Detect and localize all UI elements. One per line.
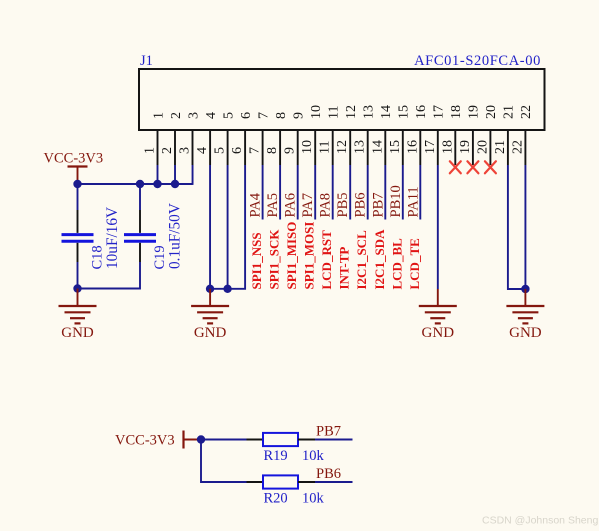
svg-text:10: 10	[309, 105, 324, 119]
svg-text:LCD_TE: LCD_TE	[407, 238, 422, 289]
svg-text:CSDN @Johnson Sheng: CSDN @Johnson Sheng	[482, 515, 598, 527]
svg-text:7: 7	[248, 147, 263, 154]
pin 1 stub and numbers	[143, 112, 167, 165]
svg-text:12: 12	[344, 105, 359, 119]
svg-text:16: 16	[405, 140, 420, 154]
ground below pin 17	[419, 289, 457, 341]
svg-text:22: 22	[510, 140, 525, 154]
wire pin 16	[419, 165, 421, 220]
svg-text:PB7: PB7	[370, 193, 386, 218]
pin 20 stub and numbers	[475, 105, 499, 165]
wire pin 21 down and right	[508, 165, 526, 289]
wire pin 4 down	[209, 165, 211, 289]
svg-text:13: 13	[353, 140, 368, 154]
junction on VCC rail at C19	[136, 180, 144, 188]
wire VCC down to R20 row	[201, 440, 247, 483]
junction on VCC rail at pin 1	[153, 180, 161, 188]
svg-text:6: 6	[239, 112, 254, 119]
no-connect X pin 18	[450, 161, 461, 173]
svg-text:LCD_RST: LCD_RST	[319, 230, 334, 290]
svg-text:0.1uF/50V: 0.1uF/50V	[167, 203, 184, 269]
pin 2 stub and numbers	[160, 112, 184, 165]
wire pin 9	[297, 165, 299, 220]
wire pin 3 to VCC rail	[192, 165, 194, 185]
svg-text:14: 14	[370, 140, 385, 154]
svg-text:5: 5	[213, 147, 228, 154]
wire pin 17 down	[437, 165, 439, 289]
svg-text:18: 18	[440, 140, 455, 154]
junction at C18 bottom	[73, 284, 81, 292]
svg-text:SPI1_SCK: SPI1_SCK	[267, 229, 282, 290]
wire pin 15	[402, 165, 404, 220]
svg-text:21: 21	[493, 140, 508, 154]
svg-text:PB6: PB6	[353, 193, 369, 218]
resistor R20	[247, 475, 325, 506]
svg-text:PB6: PB6	[316, 466, 341, 482]
svg-text:8: 8	[265, 147, 280, 154]
svg-text:12: 12	[335, 140, 350, 154]
svg-text:3: 3	[186, 112, 201, 119]
pin 17 stub and numbers	[423, 105, 447, 165]
svg-text:9: 9	[283, 147, 298, 154]
svg-text:17: 17	[432, 105, 447, 119]
svg-text:I2C1_SDA: I2C1_SDA	[372, 229, 387, 290]
pin 5 stub and numbers	[213, 112, 237, 165]
wire pin 14	[384, 165, 386, 220]
pin 12 stub and numbers	[335, 105, 359, 165]
svg-text:13: 13	[362, 105, 377, 119]
svg-text:7: 7	[256, 112, 271, 119]
svg-text:PB7: PB7	[316, 424, 341, 440]
pin 3 stub and numbers	[178, 112, 202, 165]
pin 7 stub and numbers	[248, 112, 272, 165]
junction pin 4	[206, 285, 214, 293]
svg-text:PA8: PA8	[318, 193, 334, 217]
svg-text:17: 17	[423, 140, 438, 154]
wire pin 11	[332, 165, 334, 220]
svg-text:14: 14	[379, 105, 394, 119]
capacitor C18	[62, 207, 122, 270]
wire C18 bottom	[77, 262, 79, 289]
pin 19 stub and numbers	[458, 105, 482, 165]
wire pin 12	[349, 165, 351, 220]
svg-text:PA5: PA5	[265, 193, 281, 217]
svg-text:GND: GND	[422, 325, 455, 341]
pin 16 stub and numbers	[405, 105, 429, 165]
svg-text:PA4: PA4	[248, 192, 264, 217]
wire C19 top	[139, 184, 141, 210]
svg-text:15: 15	[388, 140, 403, 154]
ground below pin 22	[506, 289, 544, 341]
connector J1 body	[139, 69, 545, 130]
wire pin 5 down	[227, 165, 229, 289]
wire C18 top	[77, 184, 79, 210]
ground below pins 4-6	[191, 289, 229, 341]
svg-text:19: 19	[458, 140, 473, 154]
no-connect X pin 19	[467, 161, 478, 173]
svg-text:PA11: PA11	[405, 186, 421, 217]
svg-text:2: 2	[160, 147, 175, 154]
pin 13 stub and numbers	[353, 105, 377, 165]
power symbol VCC-3V3 (bottom)	[115, 431, 200, 449]
wire VCC to R19	[201, 439, 247, 441]
svg-text:AFC01-S20FCA-00: AFC01-S20FCA-00	[414, 53, 541, 69]
wire pin 1 to VCC rail	[157, 165, 159, 184]
svg-text:SPI1_MOSI: SPI1_MOSI	[302, 222, 317, 290]
pin 11 stub and numbers	[318, 106, 342, 165]
svg-text:PA6: PA6	[283, 193, 299, 217]
wire pin 7	[262, 165, 264, 220]
capacitor C19	[124, 203, 184, 269]
ground below C18/C19	[59, 289, 97, 342]
pin 14 stub and numbers	[370, 105, 394, 165]
svg-text:9: 9	[292, 112, 307, 119]
svg-text:11: 11	[318, 141, 333, 154]
wire VCC rail	[78, 183, 193, 185]
resistor R19	[247, 433, 325, 464]
svg-text:SPI1_MISO: SPI1_MISO	[284, 222, 299, 290]
power symbol VCC-3V3 (top)	[44, 151, 104, 184]
junction pin 22	[521, 285, 529, 293]
wire pin 2 to VCC rail	[174, 165, 176, 184]
svg-text:22: 22	[519, 105, 534, 119]
svg-text:PB5: PB5	[335, 193, 351, 218]
svg-text:15: 15	[397, 105, 412, 119]
pin 18 stub and numbers	[440, 105, 464, 165]
svg-text:4: 4	[195, 147, 210, 154]
svg-text:10k: 10k	[302, 491, 325, 507]
svg-text:5: 5	[221, 112, 236, 119]
svg-text:LCD_BL: LCD_BL	[389, 238, 404, 290]
svg-text:I2C1_SCL: I2C1_SCL	[354, 230, 369, 290]
svg-text:PA7: PA7	[300, 193, 316, 217]
wire pin 8	[279, 165, 281, 220]
svg-text:11: 11	[327, 106, 342, 119]
junction at VCC bottom	[197, 435, 205, 443]
svg-text:PB10: PB10	[388, 185, 404, 217]
svg-text:GND: GND	[61, 325, 94, 341]
wire pin 6 down and left	[210, 165, 245, 289]
pin 6 stub and numbers	[230, 112, 254, 165]
svg-text:10: 10	[300, 140, 315, 154]
svg-text:GND: GND	[509, 325, 542, 341]
svg-text:8: 8	[274, 112, 289, 119]
svg-text:GND: GND	[194, 325, 227, 341]
pin 9 stub and numbers	[283, 112, 307, 165]
svg-text:J1: J1	[140, 53, 153, 69]
wire C19 bottom to C18 bottom	[78, 262, 141, 289]
pin 8 stub and numbers	[265, 112, 289, 165]
svg-text:6: 6	[230, 147, 245, 154]
svg-text:10uF/16V: 10uF/16V	[104, 207, 121, 269]
svg-text:R20: R20	[264, 491, 288, 507]
wire pin 13	[367, 165, 369, 220]
svg-text:R19: R19	[264, 448, 288, 464]
pin 22 stub and numbers	[510, 105, 534, 165]
svg-text:16: 16	[414, 105, 429, 119]
wire R19 to PB7	[315, 439, 353, 441]
svg-text:VCC-3V3: VCC-3V3	[115, 433, 175, 449]
svg-text:1: 1	[151, 112, 166, 119]
wire pin 22 down	[524, 165, 526, 289]
svg-text:21: 21	[502, 105, 517, 119]
svg-text:19: 19	[467, 105, 482, 119]
pin 10 stub and numbers	[300, 105, 324, 165]
svg-text:INT-TP: INT-TP	[337, 247, 352, 290]
svg-text:3: 3	[178, 147, 193, 154]
svg-text:2: 2	[169, 112, 184, 119]
junction on VCC rail at C18	[73, 180, 81, 188]
svg-text:18: 18	[449, 105, 464, 119]
svg-text:20: 20	[475, 140, 490, 154]
pin 4 stub and numbers	[195, 112, 219, 165]
svg-text:20: 20	[484, 105, 499, 119]
junction pin 5	[223, 285, 231, 293]
svg-text:VCC-3V3: VCC-3V3	[44, 151, 104, 167]
junction on VCC rail at pin 2	[171, 180, 179, 188]
pin 15 stub and numbers	[388, 105, 412, 165]
svg-text:10k: 10k	[302, 448, 325, 464]
wire R20 to PB6	[315, 481, 353, 483]
svg-text:SPI1_NSS: SPI1_NSS	[249, 232, 264, 289]
no-connect X pin 20	[485, 161, 496, 173]
wire pin 10	[314, 165, 316, 220]
svg-text:1: 1	[143, 147, 158, 154]
svg-text:4: 4	[204, 112, 219, 119]
pin 21 stub and numbers	[493, 105, 517, 165]
